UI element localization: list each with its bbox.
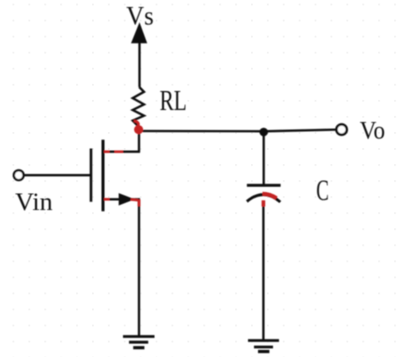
svg-text:C: C [316, 175, 329, 207]
svg-text:Vs: Vs [126, 2, 153, 31]
svg-text:Vin: Vin [15, 189, 53, 216]
svg-text:Vo: Vo [360, 116, 385, 145]
svg-text:RL: RL [160, 85, 187, 117]
